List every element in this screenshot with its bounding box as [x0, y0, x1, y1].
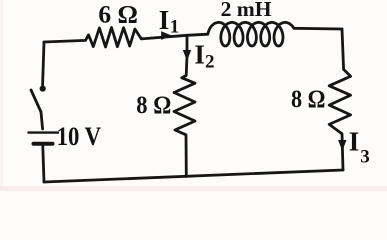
svg-text:3: 3 [360, 147, 370, 168]
svg-text:6 Ω: 6 Ω [98, 2, 137, 29]
svg-text:8 Ω: 8 Ω [291, 86, 326, 113]
svg-text:I: I [194, 40, 205, 70]
svg-text:10 V: 10 V [57, 122, 102, 151]
svg-text:I: I [349, 127, 360, 157]
svg-text:2: 2 [205, 52, 215, 73]
svg-text:2 mH: 2 mH [221, 0, 272, 21]
svg-text:8 Ω: 8 Ω [136, 92, 171, 119]
svg-text:I: I [159, 5, 170, 35]
svg-text:1: 1 [170, 17, 180, 38]
